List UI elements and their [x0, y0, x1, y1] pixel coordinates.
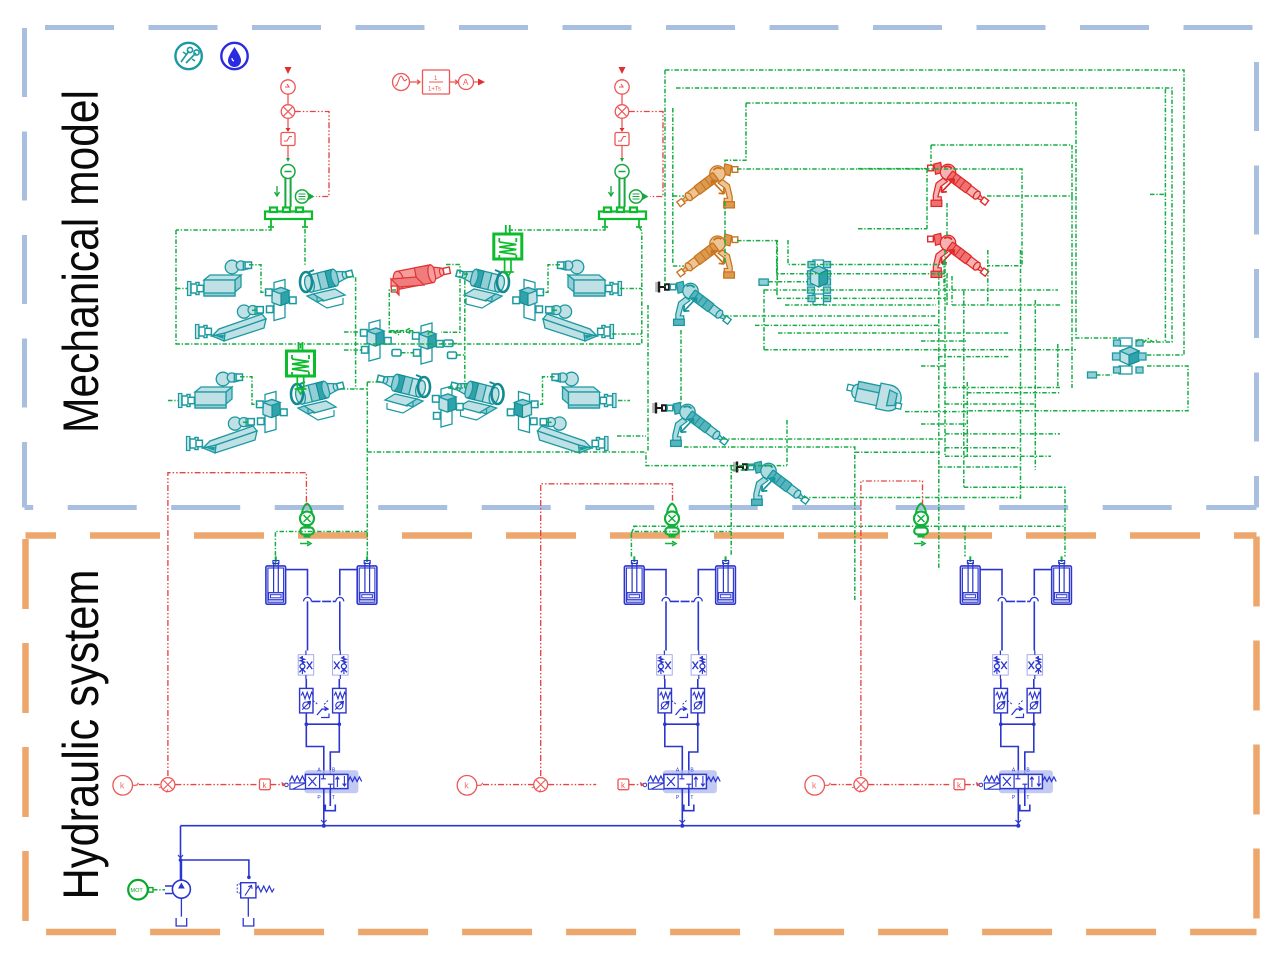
wire rc3 [966, 382, 968, 456]
junction 1.jR [338, 722, 342, 726]
wire l7 [724, 315, 936, 317]
hydraulic library icon (drop) [221, 43, 247, 69]
rotary actuator CL4.motor [449, 377, 503, 420]
mechanism cluster CL2 [179, 372, 346, 453]
pilot selector 1.ps [313, 701, 329, 718]
red wire K2a [483, 784, 533, 786]
transfer function block TF1 [423, 70, 450, 94]
wire ch2R [639, 227, 642, 344]
signal source CH2.src [615, 67, 629, 104]
spring-damper block SD1 [494, 225, 522, 277]
summing junction CH1.sum [281, 105, 295, 132]
wire n9 [931, 145, 1072, 388]
wire rc4 [1020, 250, 1022, 500]
svg-text:k: k [812, 781, 817, 791]
wire MOT-pump [153, 889, 165, 891]
teal jack JK_T3 [735, 461, 811, 506]
wire n7 [737, 241, 808, 282]
pipe 2.vR [697, 601, 699, 650]
mass ball CL4.ball1 [552, 372, 578, 386]
gain block K2b [618, 779, 629, 790]
wire uj2w [1136, 339, 1157, 343]
svg-text:T: T [332, 795, 335, 801]
wire t3n [803, 497, 1021, 499]
wire l9 [764, 349, 1076, 351]
svg-text:MOT: MOT [131, 888, 144, 894]
svg-text:T: T [1026, 795, 1029, 801]
relief valve RV1 [237, 883, 274, 926]
wire n5c [673, 265, 684, 267]
pipe 3.vL [1001, 601, 1003, 650]
mass ball CL3.ball1 [558, 260, 584, 274]
crossover link 2.x [662, 597, 702, 601]
wall bracket CL1.br2 [196, 325, 212, 339]
wire rc2 [963, 291, 965, 487]
junction 1.jL [305, 722, 309, 726]
teal jack JK_T2 [654, 402, 730, 447]
pipe 2.vL [665, 601, 667, 650]
pipe 1.cR [338, 679, 340, 724]
wire n2 [676, 88, 1172, 342]
check+orifice valve CO1L [298, 651, 314, 680]
command source K2 [457, 776, 483, 796]
wire CL4.w1 [536, 377, 555, 405]
wire cl3arm [612, 333, 642, 335]
mass ball CL2.ball2 [228, 417, 254, 430]
main supply line [181, 825, 1019, 827]
pipe 1.pR [340, 570, 357, 596]
junction 3.jR [1032, 722, 1036, 726]
rotary actuator CL1.motor [300, 265, 354, 308]
wire l8 [755, 324, 938, 326]
hydraulic cylinder CYL2L [624, 556, 644, 604]
check+orifice valve CO2R [691, 651, 707, 680]
wire l4 [764, 289, 1058, 291]
svg-text:k: k [464, 781, 469, 791]
wire x3 [921, 365, 945, 367]
universal joint block UJ1 [808, 260, 831, 305]
wire cl2br [168, 400, 178, 402]
wire n5b [673, 195, 684, 197]
position transducer XS3 [914, 504, 928, 546]
pressure line 2.P [681, 789, 683, 826]
wire CL1.w1 [249, 265, 268, 293]
saturation block CH1.sat [281, 133, 295, 159]
wire n4 [664, 70, 666, 287]
velocity pickup CH2.pick [609, 186, 649, 203]
wire n8 [737, 169, 1022, 266]
mass ball CL2.ball1 [216, 372, 242, 386]
hydraulic system boundary box [26, 536, 1257, 933]
pilot selector 2.ps [672, 701, 688, 718]
wire n5 [672, 108, 674, 265]
wire n10 [946, 203, 948, 236]
wire lv3 [938, 272, 940, 570]
wire x6 [938, 466, 1020, 468]
pipe 2.cR [697, 679, 699, 724]
orange jack JK_O2 [675, 234, 737, 279]
check+orifice valve CO2L [657, 651, 673, 680]
proportional valve DV1 [285, 768, 362, 802]
wire bus2 [367, 420, 787, 557]
red feedback wire CH2.fb [629, 112, 663, 197]
junction 2.jL [663, 722, 667, 726]
revolute joint JB [413, 323, 444, 364]
saturation block CH2.sat [615, 133, 629, 159]
telescopic damper DMP [844, 376, 905, 413]
red jack JK_R1 [928, 162, 990, 207]
tank line 1.T [325, 789, 335, 811]
red wire K1b [175, 784, 258, 786]
pipe 1.cL [305, 679, 307, 724]
wire cl4arm [617, 435, 646, 437]
pipe 1.vR [339, 601, 341, 650]
wire cl3mot [448, 274, 468, 388]
hydraulic cylinder CYL3R [1052, 556, 1072, 604]
link arm CL1.arm [212, 314, 266, 341]
teal jack JK_T1 [657, 281, 733, 326]
check+orifice valve CO3L [993, 651, 1009, 680]
wire l5 [777, 297, 948, 299]
wire cl4br [618, 400, 630, 402]
wire x4 [945, 403, 1035, 405]
wire XS1.gr [275, 532, 367, 566]
wire l6 [785, 304, 1060, 306]
velocity pickup CH1.pick [275, 186, 315, 203]
flow compensator FC2L [658, 688, 672, 713]
red wire K3a [831, 784, 854, 786]
bridge pipe 3.bb [1001, 724, 1034, 774]
pilot selector 3.ps [1008, 701, 1024, 718]
pressure line 3.P [1017, 789, 1019, 826]
pipe 3.pL [980, 570, 1002, 596]
motor bubble MOT [128, 880, 153, 900]
red wire 2.kv [629, 783, 643, 787]
rotary actuator CL2.motor [291, 377, 345, 420]
red wire K3b [868, 784, 949, 786]
port pad JB.p4 [448, 352, 457, 359]
pipe 2.cL [664, 679, 666, 724]
wire CL2.w1 [240, 377, 259, 405]
pipe 1.vL [307, 601, 309, 650]
rotary actuator CL3.motor [455, 265, 509, 308]
pipe 3.pR [1034, 570, 1051, 596]
wire cl2mot [341, 388, 368, 390]
red wire 3.kv [965, 783, 979, 787]
wall bracket CL3.br1 [606, 282, 622, 296]
wire rh7 [964, 487, 1065, 527]
check+orifice valve CO1R [333, 651, 349, 680]
mechanical library icon [175, 43, 201, 69]
red feedback wire CH1.fb [295, 112, 329, 197]
summing junction CH2.sum [615, 105, 629, 132]
junction 3.jL [999, 722, 1003, 726]
wire x2 [938, 356, 1010, 358]
wire uj2a [1096, 374, 1112, 376]
wire x7 [987, 250, 989, 305]
signal source SRC_TF [393, 74, 421, 91]
crank manifold CH1.man [265, 208, 312, 228]
wire rc6 [1034, 300, 1036, 470]
port pad JB.p3 [444, 340, 453, 347]
flow compensator FC3R [1027, 688, 1041, 713]
svg-text:1+Ts: 1+Ts [428, 87, 441, 93]
hydraulic cylinder CYL1R [357, 556, 377, 604]
junction 2.jR [696, 722, 700, 726]
check+orifice valve CO3R [1027, 651, 1043, 680]
mass ball CL4.ball2 [540, 417, 566, 430]
flow compensator FC1R [333, 688, 347, 713]
red wire K1a [139, 784, 161, 786]
wall bracket CL4.br1 [600, 394, 616, 408]
wire lf1 [647, 305, 649, 452]
spring-damper block SD2 [287, 342, 315, 394]
supply riser [181, 826, 249, 880]
junction 3.jP [1016, 824, 1020, 828]
svg-text:T: T [690, 795, 693, 801]
wire JA.left [344, 332, 363, 389]
junction 1.jP [322, 824, 326, 828]
mass ball CL1.ball2 [237, 305, 263, 318]
wire XS2.gr [631, 527, 731, 557]
body box CL4.box [563, 387, 600, 408]
wire n2b [1150, 89, 1165, 342]
orange jack JK_O1 [675, 164, 737, 209]
multiplier M2 [532, 778, 548, 793]
rotary actuator CL4.motorA [376, 370, 430, 413]
wire actR [441, 265, 460, 333]
wire CL3.w1 [542, 265, 561, 293]
hydraulic cylinder CYL1L [266, 556, 286, 604]
gain block K3b [954, 779, 965, 790]
red wire FB3 [861, 481, 923, 776]
wire rh1 [943, 387, 1060, 389]
wire n9b [930, 145, 932, 166]
wire JB.right [441, 344, 465, 356]
pipe 2.pR [698, 570, 715, 596]
tank line 2.T [684, 789, 694, 811]
red wire 1.kv [270, 783, 284, 787]
link arm CL3.arm [543, 314, 597, 341]
wire rh4 [945, 433, 1060, 435]
wall bracket CL3.br2 [598, 325, 614, 339]
revolute joint CL2.joint [257, 392, 288, 433]
wire n12 [946, 274, 948, 305]
wire t2f [684, 447, 940, 600]
wire cl4motA [367, 381, 380, 383]
mechanism cluster CL4 (mirrored) [449, 372, 616, 453]
flow compensator FC1L [300, 688, 314, 713]
red wire FB2 [541, 484, 673, 776]
wire n3 [746, 103, 1118, 338]
gain block K1b [260, 779, 271, 790]
wire lv1 [763, 290, 765, 350]
wire rh2 [967, 392, 1060, 394]
wire ch1R [304, 229, 306, 266]
pipe 3.cL [1000, 679, 1002, 724]
wall bracket CL4.br2 [592, 437, 608, 451]
wire cl1mot [347, 277, 356, 332]
wire l2 [777, 240, 948, 274]
wire lv2 [776, 263, 778, 298]
wire rh6 [945, 455, 1051, 457]
tank line 3.T [1020, 789, 1030, 811]
pump P1 [165, 860, 190, 926]
command source K3 [805, 776, 831, 796]
wall bracket CL1.br1 [188, 282, 204, 296]
signal source CH1.src [281, 67, 295, 104]
bridge pipe 1.bb [306, 724, 339, 774]
wire ch1L [176, 228, 271, 344]
wire n3b [725, 103, 746, 164]
wire rh5 [945, 447, 1020, 449]
wire cl1br [176, 288, 187, 290]
comparator CH1.cmp [281, 158, 295, 207]
wire l1 [788, 240, 948, 265]
command source K1 [113, 776, 139, 796]
wire rc1 [944, 250, 946, 456]
hydraulic cylinder CYL3L [960, 556, 980, 604]
wire t2n [722, 438, 945, 440]
position transducer XS2 [665, 504, 679, 546]
svg-text:k: k [120, 781, 125, 791]
pipe 3.cR [1033, 679, 1035, 724]
wall bracket CL2.br1 [179, 394, 195, 408]
svg-text:A: A [463, 78, 469, 87]
mass ball CL3.ball2 [546, 305, 572, 318]
wire ch2L [508, 228, 605, 230]
mass ball CL1.ball1 [225, 260, 251, 274]
body box CL3.box [568, 275, 605, 296]
crossover link 3.x [998, 597, 1038, 601]
wire sd2v [300, 344, 302, 351]
flow compensator FC3L [994, 688, 1008, 713]
wire bus1 [175, 343, 641, 345]
comparator CH2.cmp [615, 158, 629, 207]
port pad JB.p1 [392, 350, 401, 357]
revolute joint CL3.joint [513, 280, 544, 321]
wire l8b [778, 332, 1010, 334]
wire rh3 [905, 411, 967, 413]
universal joint block UJ2 [1113, 338, 1147, 374]
wire x1 [921, 340, 966, 342]
multiplier M3 [852, 778, 868, 793]
port pad UJ1.stub [759, 279, 768, 285]
wire lv4 [943, 260, 945, 290]
body box CL2.box [195, 387, 232, 408]
flow compensator FC2R [691, 688, 705, 713]
wire busv367 [366, 382, 368, 557]
hydraulic cylinder CYL2R [716, 556, 736, 604]
wire actL [389, 290, 414, 335]
multiplier M1 [159, 778, 175, 793]
mechanism cluster CL1 [188, 260, 355, 341]
mechanism cluster CL3 (mirrored) [455, 260, 622, 341]
wall bracket CL2.br2 [187, 437, 203, 451]
pipe 1.pL [286, 570, 308, 596]
wire n6 [724, 202, 726, 264]
revolute joint CL4.jointA [433, 386, 464, 427]
red linear actuator ACT [391, 261, 452, 295]
proportional valve DV3 [979, 768, 1056, 802]
revolute joint CL1.joint [266, 280, 297, 321]
revolute joint CL4.joint [507, 392, 538, 433]
bridge pipe 2.bb [665, 724, 698, 774]
wire uj2b [967, 366, 1188, 411]
mechanical model boundary box [25, 28, 1257, 508]
pressure line 1.P [323, 789, 325, 826]
svg-text:Hydraulic system: Hydraulic system [53, 570, 109, 900]
body box CL1.box [204, 275, 241, 296]
junction 2.jP [680, 824, 684, 828]
wire rc5 [1057, 344, 1059, 388]
crank manifold CH2.man [599, 208, 646, 228]
wire XS3.gr [633, 526, 1065, 556]
red jack JK_R2 [928, 233, 990, 278]
pipe 2.pL [644, 570, 666, 596]
wire n11 [858, 169, 927, 229]
revolute joint JA [361, 320, 392, 361]
meter block A1 [450, 75, 486, 90]
wire lv5 [951, 276, 953, 305]
wire JA-JB [390, 328, 432, 353]
wire t1f [680, 330, 682, 404]
proportional valve DV2 [643, 768, 720, 802]
link arm CL2.arm [203, 426, 257, 453]
port pad UJ2.stub [1088, 372, 1097, 378]
wire x5 [921, 423, 966, 425]
position transducer XS1 [300, 504, 314, 546]
svg-text:Mechanical model: Mechanical model [53, 90, 109, 433]
wire cl3br [620, 288, 642, 290]
wire n1 [665, 70, 1184, 355]
crossover link 1.x [304, 597, 344, 601]
red wire FB1 [168, 473, 307, 776]
pipe 3.vR [1033, 601, 1035, 650]
link arm CL4.arm [538, 426, 592, 453]
red wire K2b [548, 784, 596, 786]
